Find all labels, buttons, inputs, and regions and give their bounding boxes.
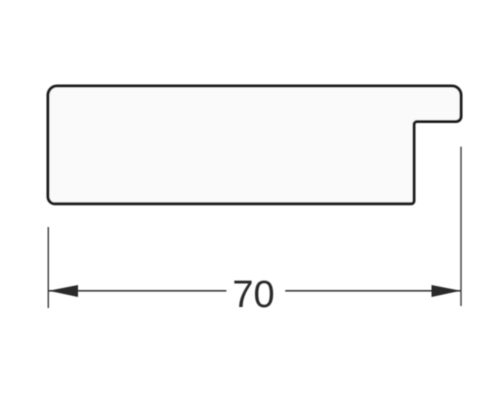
arrowhead right xyxy=(432,285,461,297)
extension line left xyxy=(47,227,49,308)
extension line right xyxy=(460,147,462,306)
dimension line left segment xyxy=(49,290,226,292)
dimension line right segment xyxy=(285,290,460,292)
arrowhead left xyxy=(49,285,78,297)
frame profile cross-section outline xyxy=(48,86,461,204)
svg-text:70: 70 xyxy=(232,274,274,316)
